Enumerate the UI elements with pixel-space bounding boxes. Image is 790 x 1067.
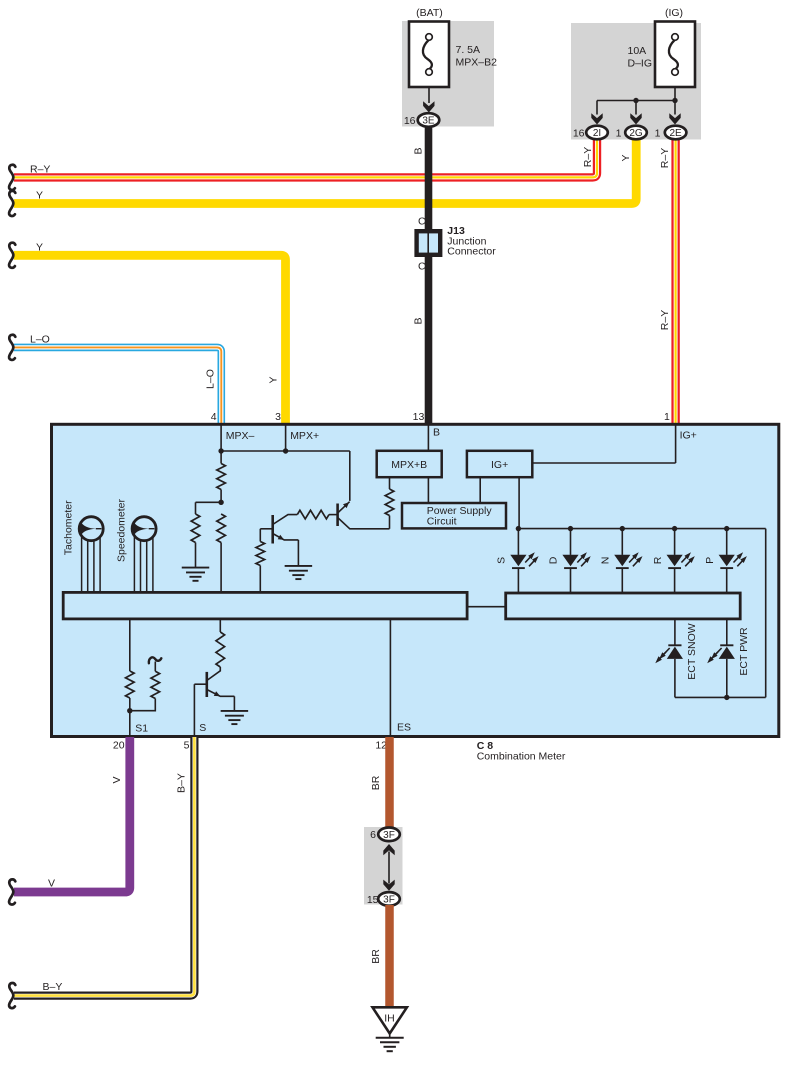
curly continuation B-Y — [9, 983, 15, 1008]
arrow into 3E — [423, 101, 434, 112]
wire Y from left edge to pin 3 MPX+ — [14, 255, 286, 424]
wire left branch — [196, 501, 222, 503]
junction dot pin4 — [218, 448, 223, 453]
LED S — [510, 555, 526, 566]
svg-text:10A: 10A — [628, 45, 647, 57]
Q1 collector to R4 — [273, 515, 298, 525]
curly continuation L-O — [9, 335, 15, 360]
curly continuation Y2 — [9, 243, 15, 268]
combination meter box C8 — [52, 424, 779, 736]
svg-text:ECT PWR: ECT PWR — [738, 627, 750, 676]
resistor R7 sensor — [126, 671, 135, 698]
wire IG+ to power supply — [479, 477, 481, 503]
wire BR from 3F to ground — [385, 905, 394, 1007]
Q1 emitter with arrow — [273, 534, 299, 540]
svg-text:S1: S1 — [135, 723, 148, 735]
wire between bus bars — [467, 606, 506, 608]
svg-text:5: 5 — [184, 739, 190, 751]
curly continuation Y — [9, 191, 15, 216]
arrow into 2I — [591, 113, 602, 124]
connector 3E pin 16 — [418, 113, 440, 127]
wire R-Y from connector 2E to pin 1 IG+ — [671, 139, 679, 424]
svg-text:3F: 3F — [383, 830, 395, 841]
junction dot pin3 — [283, 448, 288, 453]
junction dot rail S — [516, 526, 521, 531]
wire down to Q2 — [349, 451, 351, 501]
svg-text:Tachometer: Tachometer — [63, 500, 75, 555]
wire B battery feed from 3E to pin 13 — [425, 127, 433, 425]
svg-text:Y: Y — [267, 376, 279, 383]
LED R wires — [674, 529, 676, 555]
svg-text:IH: IH — [384, 1012, 395, 1024]
svg-text:2E: 2E — [669, 128, 682, 139]
transistor Q2 base bar — [336, 504, 339, 527]
svg-text:15: 15 — [367, 894, 379, 906]
wire pin4 down with junctions — [220, 425, 222, 464]
svg-text:R–Y: R–Y — [659, 310, 671, 330]
svg-text:Y: Y — [620, 154, 632, 161]
connector 2E pin 1 — [665, 126, 687, 140]
svg-text:Speedometer: Speedometer — [115, 498, 127, 562]
LED D — [562, 555, 578, 566]
svg-text:3F: 3F — [383, 895, 395, 906]
svg-text:(IG): (IG) — [665, 7, 683, 19]
svg-text:ECT SNOW: ECT SNOW — [686, 623, 698, 679]
wire S column / Q3 base — [193, 684, 195, 736]
svg-text:Combination Meter: Combination Meter — [477, 750, 566, 762]
LED ECT PWR wires — [726, 619, 728, 645]
LED ECT PWR — [720, 644, 733, 646]
svg-text:16: 16 — [573, 127, 585, 139]
ground G1 — [182, 567, 210, 569]
junction dot ECT return — [724, 695, 729, 700]
svg-text:16: 16 — [404, 115, 416, 127]
wire Y from connector 2G to left edge — [14, 139, 636, 204]
svg-text:R–Y: R–Y — [30, 163, 50, 175]
Q1 base wire — [260, 528, 272, 530]
wire pin13 to MPX+B — [427, 425, 429, 451]
wire ES column — [389, 619, 391, 736]
svg-text:(BAT): (BAT) — [416, 7, 443, 19]
svg-text:6: 6 — [370, 829, 376, 841]
junction dot — [633, 98, 638, 103]
LED R — [667, 555, 683, 566]
svg-text:D–IG: D–IG — [628, 58, 653, 70]
svg-text:R–Y: R–Y — [659, 148, 671, 168]
resistor R5 under Q1 base — [256, 542, 265, 566]
fuse block background (IG) — [571, 23, 701, 140]
resistor R1 below pin4 — [217, 464, 226, 490]
svg-text:Y: Y — [36, 190, 43, 202]
arrow into 2E — [669, 113, 680, 124]
connector 3F pin 6 — [378, 828, 400, 842]
arrow into 2G — [630, 113, 641, 124]
svg-text:Connector: Connector — [447, 246, 496, 258]
junction connector J13 — [417, 231, 441, 255]
connector 3F pin 15 — [378, 892, 400, 906]
wire S1 column — [129, 619, 131, 671]
rail right return — [765, 529, 767, 698]
junction dot — [672, 98, 677, 103]
svg-text:1: 1 — [616, 127, 622, 139]
Q2 collector wire — [338, 518, 390, 529]
ground G2 for Q1 — [285, 565, 313, 567]
LED ECT SNOW wires — [674, 619, 676, 645]
svg-text:MPX–: MPX– — [226, 430, 255, 442]
svg-text:D: D — [548, 556, 560, 564]
fuse 10A D-IG — [655, 22, 695, 88]
arrow up inside 3F — [388, 852, 390, 884]
thermistor hook — [149, 657, 161, 663]
wire R-Y from connector 2I to left edge — [14, 139, 597, 177]
Q2 emitter up with arrow — [338, 502, 350, 513]
LED supply rail — [518, 528, 765, 530]
LED D wires — [570, 529, 572, 555]
svg-text:1: 1 — [664, 411, 670, 423]
ground G3 for Q3 — [221, 710, 249, 712]
wire IG+ to LED rail — [518, 477, 520, 528]
arrow down inside 3F — [383, 880, 394, 891]
svg-text:C: C — [418, 260, 426, 272]
svg-text:7. 5A: 7. 5A — [456, 44, 481, 56]
box Power Supply Circuit — [402, 503, 506, 528]
svg-text:P: P — [704, 557, 716, 564]
svg-text:BR: BR — [370, 775, 382, 790]
resistor R9 above Q3 — [219, 619, 221, 632]
svg-text:3E: 3E — [422, 116, 435, 127]
transistor Q1 base bar — [271, 515, 274, 544]
wire pin1 to IG+ box — [675, 425, 677, 463]
bus bar right — [506, 593, 741, 619]
junction dot rail N — [620, 526, 625, 531]
speedometer gauge — [133, 530, 135, 592]
Q3 collector — [207, 667, 221, 681]
wire L-O from left edge to pin 4 MPX- — [14, 347, 221, 424]
fuse block background (BAT) — [402, 21, 494, 127]
svg-text:ES: ES — [397, 722, 411, 734]
fuse 7.5A MPX-B2 — [409, 22, 449, 88]
LED N wires — [621, 529, 623, 555]
resistor R2 to ground — [191, 514, 200, 543]
svg-text:IG+: IG+ — [680, 429, 697, 441]
svg-text:B: B — [413, 317, 425, 324]
svg-text:IG+: IG+ — [491, 459, 508, 471]
LED S wires — [517, 529, 519, 555]
ground IH triangle — [373, 1007, 407, 1033]
junction dot rail P — [724, 526, 729, 531]
curly continuation V — [9, 879, 15, 904]
tachometer gauge — [81, 530, 83, 592]
svg-text:3: 3 — [275, 411, 281, 423]
ground IH hatching — [389, 1034, 391, 1038]
wire MPX+B to power supply — [427, 477, 429, 503]
junction dot rail D — [568, 526, 573, 531]
svg-text:V: V — [48, 878, 55, 890]
wire from fuse to connector 3E — [428, 87, 430, 103]
LED P wires — [726, 529, 728, 555]
svg-text:L–O: L–O — [205, 369, 217, 389]
wire BR from pin 12 to connector 3F — [385, 737, 394, 829]
svg-text:1: 1 — [655, 127, 661, 139]
wire pin3 down — [285, 425, 287, 451]
svg-text:B: B — [433, 427, 440, 439]
svg-text:S: S — [199, 722, 206, 734]
ECT return rail — [675, 696, 766, 698]
resistor R6 under MPX+B — [389, 477, 391, 489]
wire horizontal distribution — [597, 100, 675, 102]
svg-text:S: S — [496, 557, 508, 564]
curly continuation R-Y — [9, 165, 15, 190]
svg-text:MPX+: MPX+ — [290, 430, 319, 442]
svg-text:N: N — [600, 557, 612, 565]
box IG+ — [467, 451, 532, 477]
resistor R3 to sensing bus — [217, 514, 226, 543]
transistor Q3 base bar — [206, 672, 209, 697]
wire V from pin 20 to left edge — [14, 737, 130, 892]
svg-text:2G: 2G — [629, 128, 643, 139]
svg-text:L–O: L–O — [30, 333, 50, 345]
wire from fuse down — [674, 87, 676, 101]
svg-text:C: C — [418, 215, 426, 227]
svg-text:Circuit: Circuit — [427, 516, 457, 528]
svg-text:13: 13 — [413, 411, 425, 423]
svg-text:B–Y: B–Y — [43, 981, 63, 993]
LED N — [614, 555, 630, 566]
svg-text:B–Y: B–Y — [175, 773, 187, 793]
thermistor R8 — [154, 662, 156, 672]
junction dot R1 bottom — [218, 500, 223, 505]
junction dot rail R — [672, 526, 677, 531]
svg-text:B: B — [412, 147, 424, 154]
svg-text:4: 4 — [211, 411, 217, 423]
connector block background 3F — [364, 827, 403, 905]
Q3 emitter with arrow — [207, 690, 235, 697]
LED P — [719, 555, 735, 566]
svg-text:V: V — [111, 776, 123, 783]
resistor R4 base of Q2 — [297, 510, 329, 519]
svg-text:R: R — [652, 556, 664, 564]
LED ECT SNOW — [668, 644, 681, 646]
svg-text:Y: Y — [36, 241, 43, 253]
connector 2I pin 16 — [586, 126, 608, 140]
svg-text:BR: BR — [370, 949, 382, 964]
connector 2G pin 1 — [625, 126, 647, 140]
svg-text:2I: 2I — [593, 128, 601, 139]
bus bar left — [63, 592, 467, 619]
svg-text:MPX–B2: MPX–B2 — [456, 57, 498, 69]
svg-text:R–Y: R–Y — [582, 147, 594, 167]
svg-text:MPX+B: MPX+B — [391, 459, 427, 471]
svg-text:20: 20 — [113, 739, 125, 751]
junction dot S1 — [127, 708, 132, 713]
wire B-Y from pin 5 to left edge — [14, 737, 194, 996]
box MPX+B — [377, 451, 442, 477]
wire horizontal pin4-pin3-collector — [221, 450, 350, 452]
